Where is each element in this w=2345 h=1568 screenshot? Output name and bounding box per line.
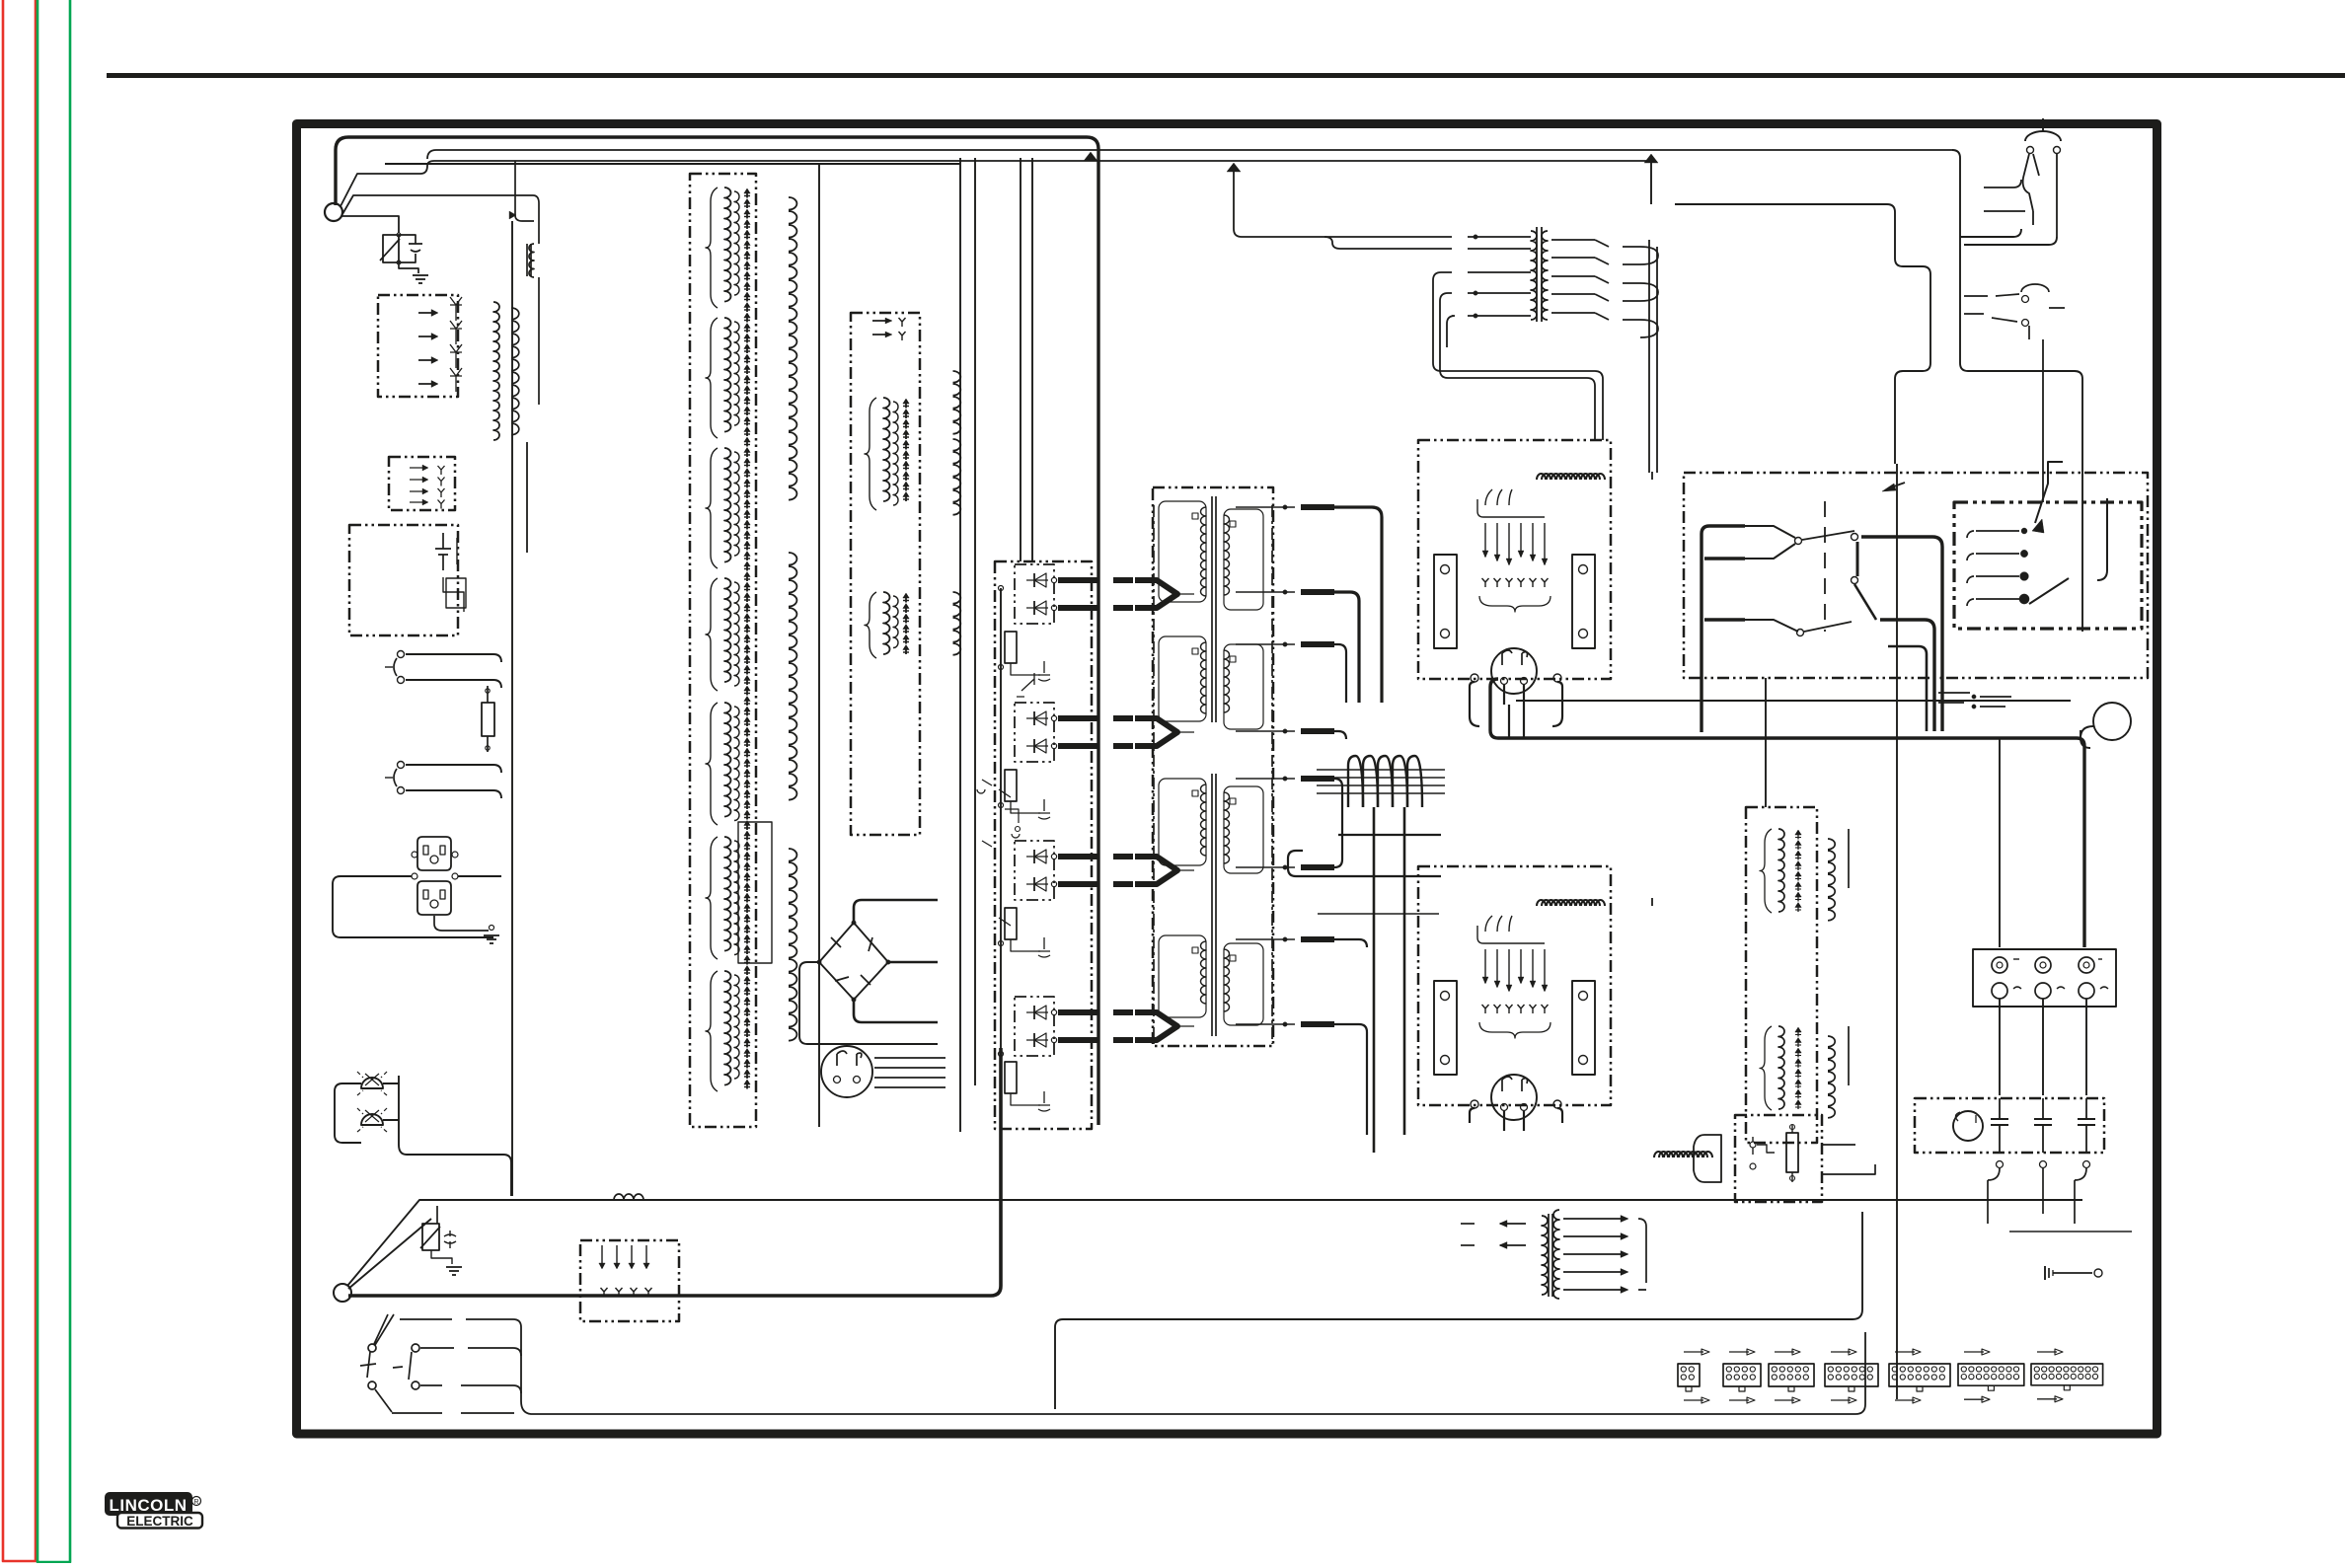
svg-text:R: R [193, 1499, 198, 1506]
svg-text:ELECTRIC: ELECTRIC [126, 1514, 193, 1529]
